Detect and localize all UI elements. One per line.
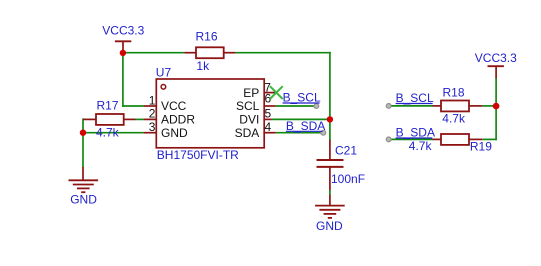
junction at VCC3.3 right	[493, 103, 500, 110]
svg-text:VCC3.3: VCC3.3	[475, 51, 517, 65]
resistor R18	[433, 101, 483, 112]
svg-text:4.7k: 4.7k	[442, 111, 466, 125]
svg-text:SDA: SDA	[235, 126, 260, 140]
svg-text:VCC: VCC	[161, 99, 187, 113]
junction at GND row left	[80, 130, 86, 136]
net label B_SCL right	[396, 91, 434, 105]
resistor R17	[83, 114, 136, 125]
svg-text:1k: 1k	[196, 59, 210, 73]
junction at VCC3.3 left	[120, 50, 126, 56]
ground GND left	[69, 167, 99, 207]
svg-text:BH1750FVI-TR: BH1750FVI-TR	[157, 148, 239, 162]
capacitor C21	[317, 140, 344, 191]
net label B_SDA right	[396, 126, 435, 140]
wire right junction down	[495, 106, 497, 140]
svg-text:100nF: 100nF	[331, 172, 365, 186]
svg-text:ADDR: ADDR	[161, 113, 195, 127]
svg-text:1: 1	[149, 93, 156, 107]
wire R17 to U7 pin 2	[136, 118, 144, 120]
svg-text:GND: GND	[316, 219, 343, 233]
wire U7 pin 4 to port B_SDA	[276, 132, 324, 134]
resistor R16	[184, 47, 235, 58]
svg-text:C21: C21	[335, 144, 357, 158]
svg-text:4: 4	[265, 120, 272, 134]
port dot B_SCL right	[386, 104, 391, 109]
wire port B_SCL to R18	[389, 105, 433, 107]
svg-text:VCC3.3: VCC3.3	[102, 24, 144, 38]
net label B_SDA left	[286, 119, 325, 133]
svg-text:5: 5	[265, 107, 272, 121]
op-amp U7 BH1750FVI-TR	[144, 79, 277, 148]
svg-text:U7: U7	[156, 65, 172, 79]
wire VCC junction to R16	[124, 52, 184, 54]
power VCC3.3 left	[102, 24, 144, 51]
wire U7 pin 6 to port B_SCL	[276, 105, 317, 107]
svg-text:3: 3	[149, 120, 156, 134]
port dot B_SDA right	[386, 137, 391, 142]
wire U7 pin 5 to junction	[272, 118, 330, 120]
svg-text:R18: R18	[443, 86, 465, 100]
svg-text:DVI: DVI	[239, 113, 259, 127]
junction at pin 5 column	[327, 116, 333, 122]
wire VCC3.3 right stem	[495, 78, 497, 106]
port dot B_SDA left	[321, 130, 326, 135]
wire VCC column down to pin1 row	[122, 53, 124, 107]
svg-text:SCL: SCL	[236, 99, 260, 113]
wire GND row to U7 pin 3	[83, 132, 144, 134]
svg-text:4.7k: 4.7k	[409, 139, 433, 153]
wire R16 to right column	[235, 52, 330, 54]
no-connect X on pin 7	[270, 86, 283, 99]
power VCC3.3 right	[475, 51, 517, 78]
port dot B_SCL left	[314, 104, 319, 109]
svg-text:R16: R16	[196, 29, 218, 43]
svg-text:EP: EP	[243, 86, 259, 100]
svg-text:4.7k: 4.7k	[96, 126, 120, 140]
wire C21 to GND	[329, 190, 331, 195]
svg-text:R17: R17	[97, 98, 119, 112]
svg-text:GND: GND	[70, 193, 97, 207]
svg-text:R19: R19	[470, 139, 492, 153]
wire pin1 row to U7 pin 1	[122, 105, 144, 107]
resistor R19	[433, 134, 483, 145]
wire R17 left down to GND	[82, 118, 84, 167]
wire port B_SDA to R19	[389, 138, 433, 140]
svg-text:2: 2	[149, 107, 156, 121]
ground GND right	[315, 195, 345, 233]
net label B_SCL left	[283, 91, 321, 105]
wire R18 to junction	[482, 105, 496, 107]
wire corner to R19	[482, 138, 497, 140]
wire right column down to C21	[329, 52, 331, 141]
svg-text:GND: GND	[161, 126, 188, 140]
